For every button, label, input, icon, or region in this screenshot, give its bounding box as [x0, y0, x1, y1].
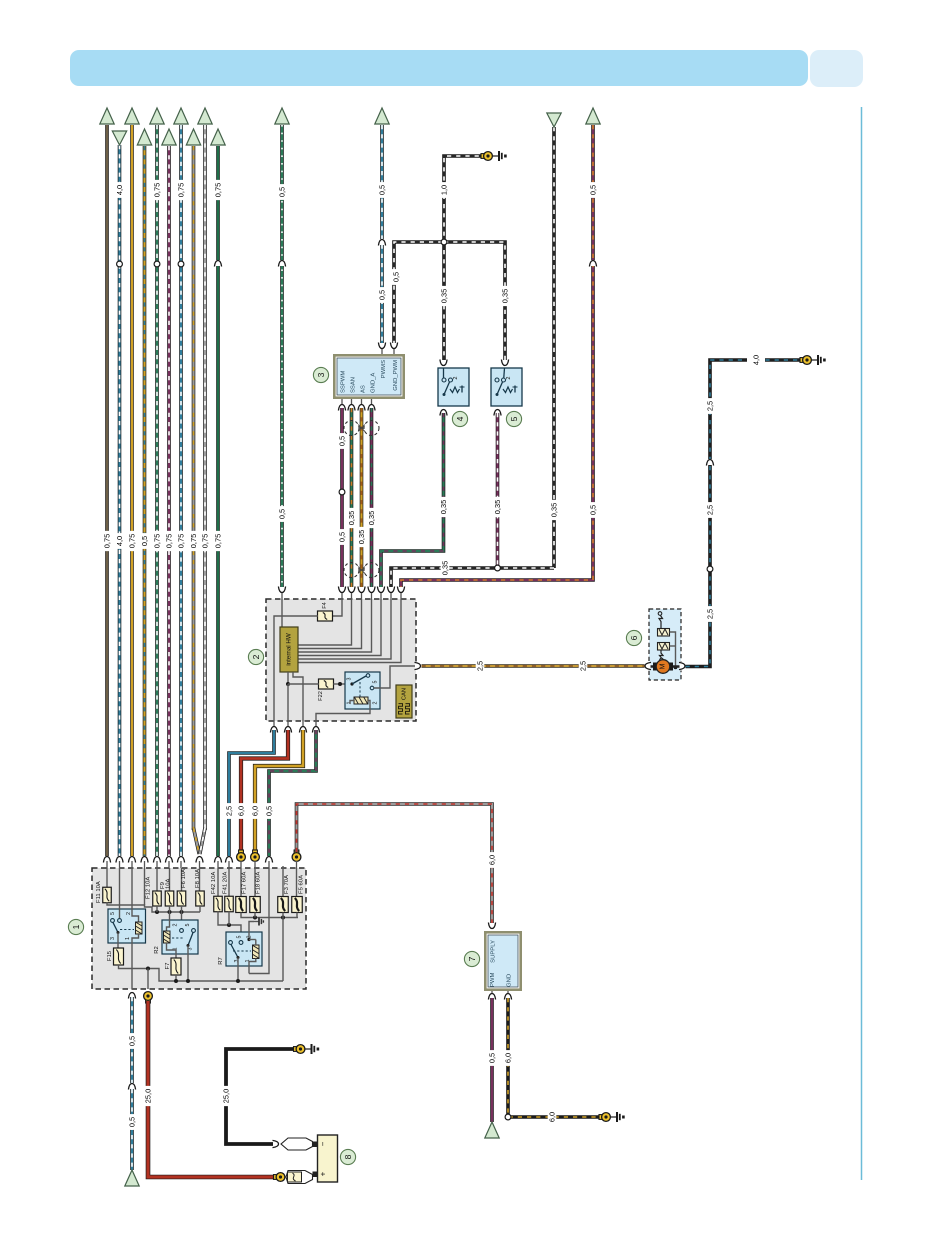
label 2,5 bl [225, 803, 234, 819]
svg-text:0,5: 0,5 [589, 185, 598, 195]
K1 wire F5 out [296, 913, 298, 918]
svg-text:AS: AS [361, 385, 367, 393]
K2 internal fan wire 3 [298, 599, 372, 652]
K2 top pin x=401 [397, 587, 406, 600]
PWM pin PWM connector [488, 991, 497, 1000]
thermo switch K5 (5) [491, 368, 522, 406]
K2 internal wire F4 to HW [274, 616, 318, 721]
K2 bottom pin x=303 [299, 721, 308, 733]
svg-text:0,5: 0,5 [278, 187, 287, 197]
K1 wire F11 bus [107, 903, 200, 913]
fuse F11 [103, 887, 112, 903]
inline connector wire5 [154, 261, 160, 267]
svg-text:F18 60A: F18 60A [256, 872, 262, 894]
label 0,5 gn/ws mid [278, 506, 287, 522]
K2 top pin x=361.5 [357, 587, 366, 600]
label 0,75 wire9 mid [201, 531, 210, 551]
svg-text:0,75: 0,75 [165, 534, 174, 548]
svg-text:0,75: 0,75 [189, 534, 198, 548]
fuse box K1 body [92, 868, 306, 989]
junction circle sw/ge [505, 1114, 511, 1120]
battery minus label [319, 1141, 328, 1146]
wire vi PWM signal [490, 998, 494, 1122]
label 0,5 PWMS top [378, 182, 387, 198]
connector triangle gn/ws [275, 108, 289, 124]
svg-text:PWM: PWM [490, 973, 496, 987]
fuse F9 [165, 891, 174, 906]
svg-text:F8 10A: F8 10A [195, 869, 201, 888]
fuse F42 [214, 896, 223, 912]
svg-text:0,5: 0,5 [488, 1053, 497, 1063]
K2 relay coil to pin316 [316, 701, 370, 722]
svg-text:0,35: 0,35 [501, 289, 510, 303]
K1 pin ring x=255 [251, 850, 260, 868]
K1 bottom ring rt [144, 992, 153, 1003]
internal HW block [280, 627, 298, 672]
wire gn/vi 0.5 K2 to K1 [269, 730, 316, 856]
svg-text:F5 60A: F5 60A [299, 875, 305, 894]
K2 bottom pin x=274 [270, 721, 279, 733]
label 0,35 bus [441, 558, 450, 578]
label 0,5 vi/or mid [589, 502, 598, 518]
svg-text:0,5: 0,5 [128, 1117, 137, 1127]
svg-text:CAN: CAN [402, 688, 408, 700]
svg-text:2,5: 2,5 [706, 609, 715, 619]
fuse F9 label [160, 878, 172, 889]
K3 pin stub PWMS [378, 343, 387, 355]
fuse F22 label [318, 691, 324, 701]
relay R7 label [218, 957, 224, 965]
svg-text:0,75: 0,75 [201, 534, 210, 548]
svg-text:5: 5 [373, 681, 379, 684]
wire vi/or to K2 [401, 125, 593, 589]
module K2 body [266, 599, 416, 721]
relay R2 dashed link [172, 937, 184, 939]
ground symbol G3 [305, 1044, 319, 1054]
label 0,5 SSPWM [338, 433, 347, 449]
inline connector gn/ws [278, 260, 287, 267]
inline connector vi/or [589, 260, 598, 267]
label 0,75 wire6 mid [165, 531, 174, 551]
svg-text:0,75: 0,75 [153, 534, 162, 548]
svg-text:1: 1 [71, 924, 81, 929]
ground symbol G1 [493, 151, 507, 161]
K1 wire pin199 F8 [199, 868, 201, 891]
fuse F22 [319, 679, 334, 689]
ground ring G2 [800, 356, 811, 365]
svg-text:8: 8 [343, 1154, 353, 1159]
fuse F17 label [242, 872, 248, 894]
K1 wire F3 down [282, 913, 284, 982]
K2 internal fan wire 1 [298, 599, 352, 645]
svg-text:M: M [660, 663, 667, 669]
K2 top pin x=351.5 [347, 587, 356, 600]
svg-text:0,75: 0,75 [153, 183, 162, 197]
connector triangle wire 9 [198, 108, 212, 124]
svg-text:SSAN: SSAN [351, 377, 357, 393]
label 6,0 gr/rt [488, 852, 497, 868]
K3 pin stub vi SSPWM [338, 399, 347, 411]
resistor R-b [658, 643, 670, 651]
wire sw/ws thermo feed [444, 156, 488, 364]
label 0,75 wire8 mid [189, 531, 198, 551]
LIN CAN block [396, 685, 412, 718]
relay R7 pin labels [234, 936, 253, 963]
label 2,5 sw/bl b [706, 502, 715, 518]
wire sw/ge PWM ground [508, 998, 604, 1117]
svg-text:0,75: 0,75 [214, 183, 223, 197]
K1 wire R7 pin2 gnd [247, 922, 255, 946]
connector triangle (down) sw/ws [547, 113, 561, 127]
label 0,5 bl/ws b [128, 1114, 137, 1130]
K1 wire F18 out [254, 913, 256, 918]
twisted pair symbol upper [344, 421, 379, 436]
fan motor M [653, 660, 673, 674]
K1 wire F6 out [181, 906, 183, 930]
K1 wire R4 arm to F15 [117, 933, 119, 949]
fuse F8 [196, 891, 205, 906]
label 0,5 SSPWM low [338, 529, 347, 545]
svg-text:10A: 10A [166, 878, 172, 889]
battery plus pin [313, 1172, 318, 1178]
svg-text:6,0: 6,0 [488, 855, 497, 865]
K2 internal wire F4 feed [333, 599, 343, 616]
K1 wire F15 out [119, 965, 284, 981]
K2 top pin x=282 [278, 587, 287, 600]
connector triangle wire 1 [100, 108, 114, 124]
relay R7 arm [231, 945, 240, 960]
K1 ground symbol [254, 918, 263, 926]
relay R4 contacts [111, 919, 122, 923]
fuse F7 [171, 958, 181, 975]
wire vi/ws column 6 [167, 146, 171, 856]
wire gn/or SSAN [350, 408, 354, 589]
fan resistor right link [670, 632, 678, 669]
thermo switch K5 out connector [493, 409, 502, 416]
wire sw/ws to K5 [444, 242, 505, 364]
K1 pin connector x=218 [214, 856, 223, 868]
svg-text:4,0: 4,0 [752, 355, 761, 365]
K1 pin connector x=181 [177, 856, 186, 868]
label 0,75 wire7 mid [177, 531, 186, 551]
label 0,75 wire7 [177, 180, 186, 200]
wire sw 25.0 battery minus [226, 1049, 296, 1144]
fuse F18 label [256, 872, 262, 894]
wire sw/ws from connector [552, 127, 556, 568]
label 0,75 wire1 mid [103, 531, 112, 551]
svg-text:2: 2 [453, 376, 459, 379]
label 4,0 wire2 mid [115, 533, 124, 549]
svg-text:0,35: 0,35 [440, 289, 449, 303]
connector triangle wire 10 [211, 129, 225, 145]
svg-text:F12 10A: F12 10A [146, 877, 152, 899]
wire gr/ws merge segment [200, 828, 205, 854]
K1 wire pin157 F12 [156, 868, 158, 891]
K3 pin label SSAN [351, 377, 357, 393]
fuse F12 label [146, 877, 152, 899]
K2 internal fan wire 4 [298, 599, 381, 656]
wire gn/ws to K2 pin [280, 125, 284, 589]
wire rt 25.0 battery plus [148, 1001, 276, 1177]
label 4,0 wire2 [115, 182, 124, 198]
label 6,0 rt [237, 803, 246, 819]
label 0,75 wire5 [153, 180, 162, 200]
svg-text:0,5: 0,5 [265, 806, 274, 816]
K2 internal fan wire 2 [298, 599, 362, 649]
K2 internal HW to pin303 [293, 672, 303, 721]
label 2,5 fan feed b [579, 658, 588, 674]
svg-text:2: 2 [126, 912, 132, 915]
wire vi/ws K5 out [496, 413, 500, 568]
K2 right exit connector [415, 662, 422, 671]
svg-text:2,5: 2,5 [225, 806, 234, 816]
K2 relay pin3 contact [350, 676, 366, 686]
label 1,0 thermo feed [440, 182, 449, 198]
label 0,5 GND_PWM [392, 269, 401, 285]
battery minus fork [281, 1138, 313, 1150]
K1 pin connector x=199.5 [195, 856, 204, 868]
K2 top pin x=381 [377, 587, 386, 600]
K1 wire to battery ring [147, 969, 149, 990]
svg-text:0,35: 0,35 [439, 500, 448, 514]
ground ring G3 [294, 1045, 305, 1054]
K2 relay pin labels [347, 678, 379, 705]
fuse F4 [318, 611, 333, 621]
fuse F7 label [165, 963, 171, 970]
component label circle 4 [452, 411, 467, 426]
svg-text:2,5: 2,5 [579, 661, 588, 671]
wire bn/ge K2 to fan resistor [422, 664, 646, 668]
relay R4 body [108, 909, 146, 943]
svg-text:0,35: 0,35 [441, 561, 450, 575]
wire gr/rt supply to PWM [297, 804, 493, 925]
inline connector wire7 [178, 261, 184, 267]
svg-text:0,5: 0,5 [378, 290, 387, 300]
K2 bottom pin x=288 [284, 721, 293, 733]
wire bl/ws column 7 [179, 125, 183, 856]
K1 wire F8 out [199, 906, 201, 912]
fuse F41 [225, 896, 234, 912]
twisted pair symbol lower [344, 563, 379, 578]
K2 internal fan wire 6 [298, 599, 401, 663]
label 0,35 GND_A [367, 508, 376, 528]
connector triangle PWMS [375, 108, 389, 124]
svg-text:0,5: 0,5 [378, 185, 387, 195]
K1 pin connector x=119.5 [115, 856, 124, 868]
label 0,5 vi PWM [488, 1050, 497, 1066]
svg-text:0,35: 0,35 [493, 500, 502, 514]
relay R2 body [162, 920, 198, 954]
label 2,5 sw/bl a [706, 606, 715, 622]
junction circle K5 bus [495, 565, 501, 571]
label 0,5 gn/vi [265, 803, 274, 819]
K2 top pin x=371.5 [367, 587, 376, 600]
svg-text:6,0: 6,0 [251, 806, 260, 816]
wire gr/ge merge segment [194, 828, 200, 854]
K1 wire R4 coil out [132, 934, 139, 989]
svg-text:−: − [319, 1141, 328, 1146]
fuse F12 [153, 891, 162, 906]
thermo switch K4 (4) [438, 368, 469, 406]
connector triangle wire 5 [150, 108, 164, 124]
wire sw/bl fan to ground [686, 360, 806, 667]
connector triangle vi/or [586, 108, 600, 124]
K1 bottom connector bl/ws [128, 992, 137, 999]
svg-text:F42 10A: F42 10A [211, 872, 217, 894]
wire gr/ws column 9 [203, 125, 207, 830]
svg-text:F4: F4 [322, 602, 328, 609]
label 0,5 gn/ws top [278, 184, 287, 200]
ground symbol G4 [611, 1112, 625, 1122]
battery minus pin [313, 1142, 318, 1148]
label 0,35 AS [357, 527, 366, 547]
connector triangle wire 3 [125, 108, 139, 124]
fan module left connector [645, 662, 652, 671]
svg-text:2,5: 2,5 [476, 661, 485, 671]
K3 pin label PWMS [381, 360, 387, 378]
label 0,35 SSAN [347, 508, 356, 528]
svg-text:0,5: 0,5 [392, 272, 401, 282]
wire gr/ge column 8 [192, 146, 196, 830]
fuse F42 label [211, 872, 217, 894]
svg-text:2: 2 [373, 702, 379, 705]
wire bl/ws PWMS [380, 125, 384, 345]
K1 wire bus to R2 coil [167, 912, 170, 931]
PWM pin GND connector [504, 991, 513, 1000]
svg-text:0,35: 0,35 [550, 503, 559, 517]
fuse F15 label [107, 950, 113, 961]
K2 internal HW to F22 [286, 672, 290, 686]
relay R2 coil [164, 931, 171, 943]
fuse F5 label [299, 875, 305, 894]
svg-text:PWMS: PWMS [381, 360, 387, 378]
K1 junction F15/red [146, 967, 150, 971]
battery ring plus [274, 1173, 285, 1182]
K2 relay pin5 wire to exit [374, 666, 417, 688]
label 0,5 wire4 mid [140, 533, 149, 549]
wire ge/or AS [360, 408, 364, 589]
relay R4 arm [113, 923, 120, 935]
wire bl/ws battery sense [130, 997, 134, 1170]
svg-text:0,5: 0,5 [140, 536, 149, 546]
relay R7 contacts [229, 941, 243, 945]
svg-text:2: 2 [251, 654, 261, 659]
fan module right connector [679, 662, 686, 671]
svg-text:F3 70A: F3 70A [284, 875, 290, 894]
fuse F3 label [284, 875, 290, 894]
label 0,5 bl/ws a [128, 1033, 137, 1049]
wire rt 6.0 K2 to K1 [241, 730, 288, 852]
battery plus label [319, 1171, 328, 1176]
inline connector sw/bl [706, 459, 715, 466]
fan resistor upper switch [658, 612, 662, 629]
svg-text:SUPPLY: SUPPLY [491, 940, 497, 963]
K1 wire F3 top [282, 866, 284, 897]
svg-text:2: 2 [506, 376, 512, 379]
K3 pin label GND_PWM [393, 360, 399, 391]
svg-text:25,0: 25,0 [222, 1089, 231, 1103]
connector triangle (down) wire 2 [112, 131, 126, 145]
K2 relay coil [354, 697, 368, 704]
relay R2 label [154, 946, 160, 954]
svg-text:4: 4 [455, 416, 465, 421]
label 2,5 sw/bl c [706, 398, 715, 414]
K1 pin connector x=269 [265, 856, 274, 868]
svg-text:6: 6 [629, 635, 639, 640]
fuse F41 label [223, 872, 229, 894]
thermo switch K4 connector [439, 360, 448, 367]
K1 pin ring x=241 [237, 850, 246, 868]
label 4,0 sw/bl top [747, 355, 765, 365]
svg-text:3: 3 [234, 960, 240, 963]
resistor R-a [658, 629, 670, 637]
K1 bus dots [155, 910, 184, 914]
svg-text:F17 60A: F17 60A [242, 872, 248, 894]
K3 pin label SSPWM [341, 371, 347, 393]
fuse F8 label [195, 869, 201, 888]
K3 pin stub GND_PWM [390, 343, 399, 355]
svg-text:3: 3 [347, 678, 353, 681]
svg-text:6,0: 6,0 [237, 806, 246, 816]
K3 pin label AS [361, 385, 367, 393]
K1 wire R7 coil out [249, 959, 256, 974]
fuse F6 [177, 891, 186, 906]
svg-text:0,5: 0,5 [338, 436, 347, 446]
K2 relay dashed link [359, 682, 361, 697]
label 0,35 K5 out [493, 497, 502, 517]
relay R7 coil [253, 945, 260, 959]
svg-text:F15: F15 [107, 950, 113, 961]
wire ge column 3 [130, 125, 134, 856]
label 6,0 ge [251, 803, 260, 819]
wire ge/bl column 4 [143, 146, 147, 856]
relay R7 body [226, 932, 262, 966]
wire gn/vi K4 out [381, 413, 444, 589]
svg-text:0,75: 0,75 [214, 534, 223, 548]
svg-text:5: 5 [509, 416, 519, 421]
inline connector bl/ws [128, 1083, 137, 1090]
K2 internal fan wire 5 [298, 599, 391, 659]
K1 wire F42 bus [218, 912, 241, 941]
svg-text:0,5: 0,5 [338, 532, 347, 542]
K3 pin stub gn/or SSAN [347, 399, 356, 411]
K2 internal wire F22 line [288, 682, 345, 686]
wire ge 6.0 K2 to K1 [255, 730, 303, 852]
K2 top pin x=342 [338, 587, 347, 600]
svg-text:5: 5 [185, 924, 191, 927]
svg-text:0,75: 0,75 [177, 183, 186, 197]
svg-text:0,75: 0,75 [128, 534, 137, 548]
svg-text:1: 1 [125, 937, 131, 940]
relay R7 dashed link [233, 950, 251, 952]
label 6,0 sw/ge b [548, 1109, 557, 1125]
svg-text:R7: R7 [218, 957, 224, 965]
fuse F18 [250, 897, 261, 913]
svg-text:internal HW: internal HW [286, 633, 293, 665]
svg-text:0,75: 0,75 [177, 534, 186, 548]
ground ring G4 [599, 1113, 610, 1122]
relay R4 pin labels [110, 912, 132, 940]
wire sw/ws bus to K2 [391, 568, 554, 589]
wire gn column 10 [216, 146, 220, 856]
svg-text:0,35: 0,35 [347, 511, 356, 525]
thermo switch K5 connector [501, 360, 510, 367]
svg-text:0,35: 0,35 [367, 511, 376, 525]
K2 relay pin arm circle [366, 674, 370, 678]
K1 wire pin218 F42 [217, 868, 219, 897]
fuse F4 label [322, 602, 328, 609]
wire bl 2.5 K2 to K1 [229, 730, 274, 856]
